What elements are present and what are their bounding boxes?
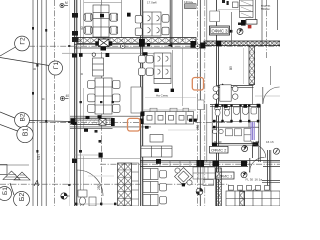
wire line x270.5 right (270, 66, 272, 85)
dimension vertical line left wall outside (68, 0, 70, 206)
wire axis dash-dot horizontal y164 (100, 163, 280, 165)
node ticks on facade lines (32, 27, 34, 30)
wall y181 bottom right (262, 180, 280, 182)
node black marks kitchen (241, 20, 246, 26)
chair bottom center 2 (160, 184, 167, 191)
tick marks on dimension line left (68, 45, 70, 186)
wall partition x170 top (169, 0, 171, 46)
orange highlight square axis x197 (192, 78, 203, 91)
pier hatched inside grid (240, 191, 245, 206)
wire left facade line 1 (32, 0, 34, 206)
svg-text:40: 40 (80, 26, 84, 30)
chair mid-left 5 (113, 94, 120, 102)
dimension line y53 (62, 52, 168, 54)
pier hatched column right (249, 46, 255, 85)
wall bottom right x271 (270, 150, 272, 206)
wall bottom band y160-166 (74, 159, 280, 167)
node black marks y90 (155, 89, 160, 92)
svg-text:Б1: Б1 (2, 187, 9, 195)
node axis bubble V1 (0, 125, 33, 143)
dimension hairline bottom mid (168, 129, 196, 131)
wall right double x217 (216, 0, 218, 206)
whiteboard cabinet rect (131, 87, 142, 113)
chair top-right 1 (135, 15, 142, 23)
wall top right hatched band (204, 41, 280, 46)
survey point mid left (60, 94, 69, 101)
wall line x231 top right (230, 12, 232, 46)
wire line x182.7 top (182, 0, 184, 40)
svg-text:FL 30: FL 30 (246, 177, 254, 181)
chair mid-left 6 (113, 105, 120, 113)
dimension hairline right mid (255, 95, 280, 97)
wire arrow marks in band (147, 43, 150, 47)
label office 1 box (216, 172, 235, 179)
meeting table right (213, 85, 238, 101)
benchmark symbol bottom (196, 188, 203, 195)
toilet 2 (224, 107, 230, 116)
svg-text:В5: В5 (229, 66, 233, 70)
survey benchmark bottom left (61, 193, 70, 199)
diamond table bottom (175, 168, 193, 186)
svg-text:8: 8 (33, 68, 37, 70)
urinal small (251, 108, 257, 115)
wall below pier y86 (217, 85, 254, 87)
sink 1 (234, 107, 240, 115)
wall x267.5 bottom right (267, 150, 269, 190)
cabinet row right of B band (144, 112, 194, 125)
node tick marks interior left (95, 130, 98, 133)
chair bottom center 3 (160, 197, 167, 204)
toilet 1 (215, 107, 221, 116)
wire left facade line 2 (36, 0, 38, 206)
wall center double x141 (140, 0, 142, 206)
chair mid-left 1 (88, 81, 95, 89)
washbasin row lower (213, 129, 251, 142)
wire axis dash-dot horizontal y122 (29, 121, 232, 123)
svg-text:Г1: Г1 (53, 62, 60, 70)
dimension hairline bottom left room (88, 175, 114, 177)
node B symbol corridor 1 (242, 146, 248, 152)
small items on cabinet top (150, 108, 189, 111)
column blob left wall 2 (72, 31, 78, 36)
wall top hatched band (74, 38, 200, 48)
wire left facade line 4 (45, 0, 47, 206)
desk block top-right (143, 12, 161, 36)
node black marks B band (86, 116, 90, 119)
chair top-center 2 (84, 26, 92, 34)
wire vertical x252.5 (252, 85, 254, 104)
node B symbol office1 (241, 172, 247, 178)
chair top-center 1 (84, 13, 92, 21)
node black dots bathroom junctions (213, 104, 259, 128)
svg-text:13Смь: 13Смь (184, 0, 194, 4)
sofa bottom center-left (141, 146, 172, 157)
wire interior finish line x83.4 (82, 0, 84, 46)
wall x206.8 bottom segment (206, 104, 208, 162)
wire axis dash-dot vertical x197 (197, 0, 199, 206)
chair mid-right 1 (146, 56, 153, 63)
chair mid-right 2 (146, 68, 153, 75)
svg-text:8: 8 (80, 73, 84, 75)
wire axis dash-dot horizontal y46 (29, 45, 280, 47)
shelf stack mid-left (93, 58, 104, 76)
svg-text:A: A (33, 179, 39, 188)
svg-text:16 1а: 16 1а (255, 177, 263, 181)
wc fixtures bottom left (78, 190, 96, 206)
svg-text:8: 8 (42, 98, 46, 100)
svg-text:550мм: 550мм (261, 7, 270, 11)
node red mark kitchen (248, 25, 252, 28)
door arc corridor 2 (250, 157, 265, 172)
cabinet column bottom center (118, 163, 132, 206)
node junction center wall top band (139, 39, 145, 47)
svg-text:FL 30: FL 30 (251, 140, 259, 144)
chair top-center 4 (110, 26, 118, 34)
wire axis dash-dot vertical x204.8 (204, 0, 206, 206)
chair top-center 3 (110, 13, 118, 21)
dimension line bottom y204 (74, 203, 117, 205)
chair bottom center 1 (160, 171, 167, 178)
wall stub top-left of triangles (0, 165, 7, 175)
chair mid-left 3 (88, 105, 95, 113)
node axis bubble B2 (10, 183, 30, 208)
section triangles bottom left (3, 171, 30, 180)
label office 3 box (210, 26, 233, 35)
stair label box (184, 0, 196, 8)
node junction left wall top band (72, 37, 79, 42)
kitchen counter top right (233, 0, 254, 18)
svg-text:ОФИС 3: ОФИС 3 (212, 29, 229, 34)
desk bottom center 3 (143, 195, 158, 206)
wall B-axis band lines (70, 116, 151, 128)
node junction marks bottom band (156, 159, 161, 164)
wire left facade line 3 (41, 0, 43, 206)
node axis bubble B1 (0, 187, 12, 201)
dimension hairline vertical right room (243, 48, 245, 84)
node junction left wall B band (71, 119, 76, 125)
wire window ticks bottom band (160, 161, 210, 167)
svg-text:На Семь: На Семь (156, 94, 169, 98)
wall far right x277 (277, 0, 279, 30)
wall far right x262 (261, 0, 263, 46)
svg-text:17.0мб: 17.0мб (147, 1, 157, 5)
chair top-right 4 (162, 27, 169, 35)
chair mid-right 4 (139, 68, 146, 75)
chair mid-right 3 (139, 56, 146, 63)
node black marks bath wall (212, 143, 217, 148)
coffee table (150, 135, 163, 143)
column blob left wall 4 (72, 159, 77, 164)
node black mark desk top-center (100, 14, 104, 18)
wall stub y155 left (74, 154, 101, 156)
wall x200 (199, 0, 201, 206)
node black marks y53 (79, 53, 83, 57)
dimension row above B band (80, 101, 114, 103)
door arc far right (263, 87, 280, 104)
node dark marks top edge kitchen (222, 0, 225, 3)
node junction x197 top band (191, 41, 197, 48)
node axis bubble G2 (0, 36, 29, 56)
dimension hairline mid room (145, 97, 196, 99)
svg-text:M: M (65, 1, 68, 5)
wire axis dash-dot horizontal y184 with jog (0, 184, 280, 191)
wire line x255.5 top (255, 0, 257, 20)
desk block mid-right (154, 53, 171, 84)
cabinet column 2 (132, 163, 139, 206)
svg-text:ОФИС 2: ОФИС 2 (211, 148, 227, 153)
wall x206.8 top segment (206, 0, 208, 46)
dimension hairline top right room (218, 9, 239, 11)
node black mark cabinet row left (141, 112, 145, 117)
chair mid-left 4 (113, 81, 120, 89)
survey circle in band x122 (121, 44, 125, 48)
node black tick top right (238, 23, 241, 26)
table grid bottom right (226, 186, 280, 207)
wire interior finish line x80.7 (80, 0, 82, 206)
svg-text:40: 40 (66, 94, 70, 98)
chair mid-left 2 (88, 94, 95, 102)
desk bottom center 2 (143, 182, 158, 193)
door leaf rect corridor mid (198, 100, 205, 110)
node junction axis2 top band window box (99, 39, 110, 47)
node axis bubble V2 (0, 112, 70, 127)
shaft rect corridor top (210, 11, 220, 22)
node B symbol right edge (273, 148, 279, 154)
chair top-right 3 (162, 15, 169, 23)
node junction center wall B band (140, 119, 145, 125)
svg-text:В2: В2 (20, 113, 27, 121)
wire partition x121.5 top (121, 0, 123, 38)
svg-text:В1: В1 (23, 128, 30, 137)
node black dots hinge (189, 119, 192, 122)
node axis bubble G1 (0, 58, 63, 76)
desk block top-center (93, 5, 109, 37)
staircase cells below wall (193, 167, 215, 186)
desk block mid-left (95, 78, 112, 114)
kitchen box (246, 20, 257, 25)
node black diamond wall y86 (220, 84, 226, 90)
svg-text:250: 250 (97, 184, 101, 190)
wall left main double (74, 0, 76, 206)
survey point top left (60, 1, 68, 8)
wire partition x172 mid (171, 50, 173, 92)
desk bottom center 1 (143, 169, 158, 180)
wire axis dash-dot vertical x101 (100, 0, 102, 206)
door arc corridor 1 (253, 145, 266, 158)
node B symbol bottom (252, 190, 258, 196)
pipe risers purple (251, 122, 254, 140)
svg-text:М1т: М1т (37, 154, 41, 160)
svg-text:Г2: Г2 (20, 37, 27, 45)
wire axis dash-dot vertical x54 (54, 0, 56, 206)
bathroom outer walls (210, 105, 261, 162)
node B symbol office3 (237, 29, 243, 35)
window x-box B band (99, 119, 106, 126)
column blob left wall 3 (72, 54, 77, 58)
wire axis dash-dot vertical x266 (265, 0, 267, 58)
column blob left wall 1 (72, 13, 78, 18)
chair top-right 2 (135, 28, 142, 36)
svg-text:250: 250 (196, 124, 200, 130)
sink 2 (243, 107, 249, 115)
svg-text:16 1б: 16 1б (266, 140, 274, 144)
door arc bottom left (77, 170, 103, 196)
svg-text:Б2: Б2 (19, 193, 26, 202)
node black bar B band right (111, 118, 115, 126)
window sill rect B band (74, 119, 110, 125)
wire top line y2.3 (84, 1, 122, 3)
label office 2 box (210, 146, 229, 153)
orange highlight square B band (128, 118, 140, 131)
pier hatched bottom right wall (216, 168, 222, 206)
